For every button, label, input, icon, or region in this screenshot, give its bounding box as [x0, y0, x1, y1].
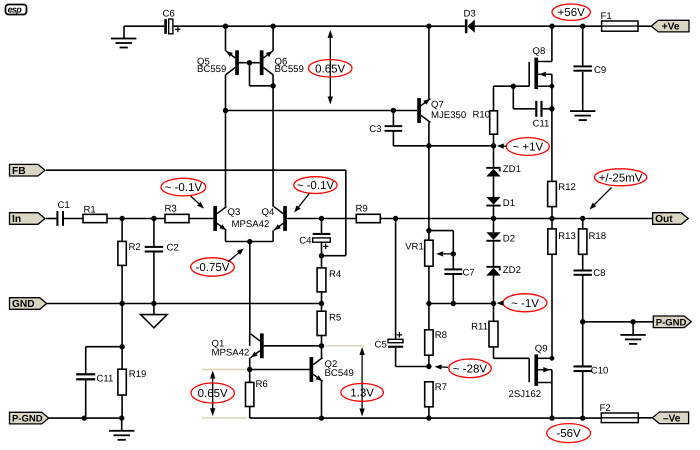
svg-text:+: + [175, 24, 181, 36]
svg-text:P-GND: P-GND [656, 317, 687, 328]
svg-text:Q7: Q7 [431, 100, 444, 111]
svg-text:Out: Out [655, 214, 673, 225]
svg-text:F1: F1 [601, 11, 612, 22]
svg-text:BC549: BC549 [325, 368, 354, 379]
svg-text:2SJ162: 2SJ162 [509, 389, 542, 400]
svg-text:P-GND: P-GND [12, 414, 43, 425]
svg-text:D2: D2 [503, 233, 515, 244]
svg-text:Q3: Q3 [228, 207, 241, 218]
svg-text:R12: R12 [558, 182, 576, 193]
svg-text:R2: R2 [129, 242, 141, 253]
svg-text:MPSA42: MPSA42 [232, 219, 270, 230]
svg-text:~ -1V: ~ -1V [511, 298, 539, 310]
svg-text:–Ve: –Ve [663, 413, 681, 424]
svg-text:~ +1V: ~ +1V [512, 142, 543, 154]
svg-text:ZD1: ZD1 [503, 164, 521, 175]
svg-text:R9: R9 [356, 204, 368, 215]
svg-text:R4: R4 [329, 269, 342, 280]
svg-text:GND: GND [12, 299, 35, 310]
svg-text:0.65V: 0.65V [198, 388, 228, 400]
svg-text:VR1: VR1 [405, 242, 424, 253]
svg-text:C7: C7 [463, 268, 475, 279]
svg-text:R8: R8 [435, 330, 447, 341]
svg-text:C6: C6 [163, 8, 175, 19]
svg-text:+Ve: +Ve [662, 22, 680, 33]
svg-text:R5: R5 [329, 313, 341, 324]
svg-text:FB: FB [12, 166, 26, 177]
svg-text:+: + [396, 329, 402, 341]
svg-text:C10: C10 [591, 365, 609, 376]
svg-text:0.65V: 0.65V [315, 63, 345, 75]
svg-text:1.3V: 1.3V [350, 387, 374, 399]
svg-text:Q9: Q9 [535, 343, 548, 354]
svg-text:+: + [323, 241, 329, 253]
svg-text:C3: C3 [369, 124, 381, 135]
svg-text:+/-25mV: +/-25mV [599, 172, 643, 184]
svg-text:D1: D1 [503, 198, 515, 209]
svg-text:C11: C11 [533, 119, 550, 130]
svg-text:D3: D3 [464, 8, 476, 19]
svg-text:R19: R19 [129, 369, 147, 380]
svg-text:~ -28V: ~ -28V [453, 363, 488, 375]
svg-text:MPSA42: MPSA42 [212, 347, 250, 358]
svg-text:R3: R3 [165, 204, 177, 215]
svg-text:C1: C1 [58, 200, 70, 211]
svg-text:C11: C11 [97, 374, 114, 385]
svg-text:C5: C5 [375, 340, 387, 351]
svg-text:esp: esp [8, 4, 23, 14]
svg-text:Q8: Q8 [533, 46, 546, 57]
svg-text:R1: R1 [84, 205, 96, 216]
svg-text:R6: R6 [256, 379, 268, 390]
svg-text:-56V: -56V [556, 428, 581, 440]
svg-text:~ -0.1V: ~ -0.1V [165, 182, 203, 194]
svg-text:R18: R18 [589, 231, 607, 242]
svg-text:Q4: Q4 [262, 207, 275, 218]
svg-text:BC559: BC559 [275, 64, 304, 75]
svg-text:C8: C8 [593, 268, 605, 279]
svg-text:C9: C9 [594, 65, 606, 76]
svg-text:R13: R13 [558, 231, 576, 242]
svg-text:MJE350: MJE350 [431, 110, 466, 121]
svg-text:R7: R7 [435, 382, 447, 393]
svg-text:C4: C4 [299, 235, 312, 246]
svg-text:R11: R11 [471, 321, 488, 332]
svg-text:C2: C2 [167, 243, 179, 254]
svg-text:ZD2: ZD2 [503, 265, 521, 276]
svg-text:BC559: BC559 [197, 64, 226, 75]
svg-text:In: In [12, 214, 21, 225]
svg-text:+56V: +56V [558, 7, 586, 19]
svg-text:-0.75V: -0.75V [196, 262, 230, 274]
svg-text:~ -0.1V: ~ -0.1V [297, 180, 335, 192]
svg-text:F2: F2 [600, 403, 611, 414]
svg-text:R10: R10 [473, 109, 491, 120]
